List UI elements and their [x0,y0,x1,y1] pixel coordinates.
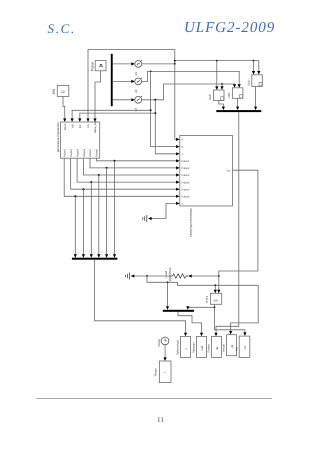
wire mux M1 to source V3 [113,98,135,101]
mux M4 output mux bar horizontal [163,310,194,312]
svg-text:Pulse1: Pulse1 [182,160,190,163]
svg-text:Vd: Vd [235,347,239,351]
svg-text:S: S [182,146,184,149]
arrow generator input 2 [71,118,74,122]
block Sc4 to workspace vq [222,335,237,356]
block G1 pulse generator (generateur d impulsions) [56,120,100,158]
node P4 junction pulse4 drop [90,181,92,183]
node P6 junction pulse6 drop [74,195,76,197]
svg-text:Temps: Temps [153,368,157,377]
wire pulse1 drop to mux M2 [113,161,116,258]
node P1 junction pulse1 drop [114,160,116,162]
wire phase C drop to Uab input 2 [220,84,223,90]
node S1 junction S net to generator input 2 [150,109,152,111]
wire T net branch to generator input 3 [80,113,156,118]
node T2 junction THY1 output branch [214,306,216,308]
wire pulse5 drop to mux M2 [82,189,85,258]
svg-text:Redresseur/thyristors: Redresseur/thyristors [189,209,193,238]
wire Uab output to mux M3 [219,101,225,111]
node T1 junction T net to generator input 3 [154,112,156,114]
block T1 to workspace temps [153,361,171,383]
source V1 AC voltage source [134,60,142,75]
svg-text:Uca: Uca [247,80,251,86]
svg-text:s/h: s/h [214,299,218,303]
ground GND1 load return [126,273,130,280]
svg-text:Pulse3: Pulse3 [182,174,190,177]
wire phase C bus from V3 [142,84,237,100]
arrow generator input 1 [63,118,66,122]
block Sc5 to workspace vd [235,336,250,357]
block THY1 measurement [205,293,222,304]
wire branch drop to THY1 input 1 [214,285,217,293]
svg-text:12: 12 [61,90,65,94]
wire S net branch to generator input 2 [72,110,151,118]
wire phase A drop to Uab input 1 [215,61,218,90]
arrow generator input 5 [93,118,96,122]
resistor RL load [164,267,188,281]
arrow generator input 4 [86,118,89,122]
wire mux M1 to source V1 [113,62,135,65]
block Sc3 to workspace vabc [207,336,222,357]
block X1 thyristor rectifier subsystem [180,136,233,238]
wire pulse 3 generator out4 to rectifier Pulse3 [84,158,180,176]
wire pulse4 drop to mux M2 [90,182,93,258]
svg-text:Virtuel: Virtuel [222,344,226,352]
svg-text:100 Ohms: 100 Ohms [168,267,172,281]
svg-text:Block: Block [64,123,67,130]
svg-text:Pulse3: Pulse3 [76,149,79,157]
node P3 junction pulse3 drop [98,174,100,176]
wire load line from Vd node to resistor [188,274,219,277]
wire mux M4 output to scope Sc2 [178,312,203,337]
wire phase A bus from V1 [142,61,261,75]
svg-text:ULFG2-2009: ULFG2-2009 [184,20,275,36]
wire phase B bus from V2 [142,71,241,87]
svg-text:v2: v2 [134,89,138,93]
wire phase A short drop to Uca input 1 [252,61,255,75]
svg-text:v3: v3 [134,108,138,112]
wire THY1 output branch to scope Sc5 [215,307,247,336]
mux M2 pulses mux bar horizontal [72,258,118,260]
svg-text:THY1: THY1 [205,296,209,304]
svg-text:AB: AB [71,124,74,128]
svg-text:4s: 4s [215,346,219,350]
svg-text:Pulse: Pulse [91,62,95,71]
node VD1 junction Vd leg crosses load line [218,275,220,277]
svg-text:alpha_deg: alpha_deg [94,120,97,133]
wire load to ground GND1 [131,274,171,277]
svg-text:Ubc: Ubc [227,92,231,98]
wire THY1 output to mux M4 input 2 [186,304,214,310]
block U2 voltage measurement Ubc [227,88,243,99]
wire Vd output of rectifier down to load node and THY1 input 2 [217,170,258,293]
ground GND2 for rectifier V input [143,215,147,222]
svg-text:Uab: Uab [208,94,212,100]
wire pulse 6 generator out1 to rectifier Pulse6 [64,158,180,198]
node P5 junction pulse5 drop [82,188,84,190]
svg-text:Pulse6: Pulse6 [182,196,190,199]
wire measurement branch from load line to scope Sc4 [147,276,258,335]
source V2 AC voltage source [134,78,142,93]
svg-text:vd: vd [243,346,247,350]
svg-text:Pulse4: Pulse4 [83,149,86,157]
svg-text:Pulse2: Pulse2 [182,167,190,170]
svg-text:Pulses: Pulses [207,344,211,353]
wire pulse6 drop to mux M2 [74,196,77,257]
wire mux M1 to source V2 [113,80,135,83]
wire S net phase B to rectifier input S [151,71,180,148]
wire pulse 1 generator out6 to rectifier Pulse1 [96,158,179,162]
svg-text:S.C.: S.C. [48,21,76,36]
svg-text:Pulse6: Pulse6 [96,149,99,157]
mux M1 demux bar vertical [111,54,113,106]
wire Ubc output to mux M3 [236,98,239,110]
block U1 voltage measurement Uab [208,90,224,101]
svg-text:vq: vq [230,345,234,349]
block Sc1 to workspace pulses [176,336,191,357]
node C1 junction phase C to T input [154,99,156,101]
mux M3 three-phase mux bar horizontal [216,110,261,112]
footer rule [37,397,273,399]
wire pulse 5 generator out2 to rectifier Pulse5 [71,158,180,191]
svg-text:v1: v1 [134,72,138,76]
source V3 AC voltage source [134,96,142,112]
wire pulse3 drop to mux M2 [97,175,100,258]
node C2 junction phase C to Uab input 2 [221,83,223,85]
wire top feedback loop from node A up-left to pulse generator input 4 [88,50,175,119]
svg-text:Vd: Vd [227,169,231,172]
node P2 junction pulse2 drop [106,167,108,169]
node L3 junction branch to THY1 input 1 [214,284,216,286]
block U3 voltage measurement Uca [247,75,263,87]
svg-text:Sybsemfuut: Sybsemfuut [176,340,180,355]
svg-text:Pulse5: Pulse5 [89,149,92,157]
node A junction on phase A at feedback loop [174,60,176,65]
node A3 junction phase A to Uca input 1 [253,60,255,62]
svg-text:Pulse1: Pulse1 [63,149,66,157]
block PG pulse source (Pulse) [91,61,106,72]
wire Pulse block to generator input 5 [95,71,101,119]
block Sc2 to workspace sorties [192,336,207,357]
wire clock to block Temps [164,345,167,361]
wire branch drop to mux M4 input 1 [166,282,169,310]
svg-text:generateur-impulsions: generateur-impulsions [56,122,60,152]
node L1 junction load line measurement branch [146,275,148,277]
svg-text:R: R [182,139,184,142]
wire Uca output to mux M3 [254,86,257,110]
svg-text:Clock: Clock [157,338,161,346]
svg-text:Sybases: Sybases [192,342,196,353]
svg-text:BC: BC [79,124,82,128]
svg-text:11: 11 [157,416,164,424]
wire mux M2 output to scope Sc1 [95,260,188,337]
svg-text:Pulse5: Pulse5 [182,188,190,191]
clock CLK source [157,337,169,347]
svg-text:RB: RB [52,89,56,94]
wire T net phase C to rectifier input T [155,100,179,156]
block RB constant [52,85,69,96]
svg-text:Pulse2: Pulse2 [70,149,73,157]
wire ground GND2 to rectifier input V [148,202,180,220]
svg-text:vab: vab [200,345,204,350]
svg-text:CA: CA [87,124,90,128]
node B1 junction phase B to S input [150,71,152,73]
wire pulse 2 generator out5 to rectifier Pulse2 [90,158,180,169]
node L2 junction branch to mux M4 input 1 [167,281,169,283]
svg-text:Pulse4: Pulse4 [182,181,190,184]
svg-text:V: V [182,203,184,206]
wire R net phase A to rectifier input R [175,64,180,141]
wire RB block to generator input 1 [63,96,65,118]
node A2 junction phase A to Uab input 1 [216,60,218,62]
arrow generator input 3 [78,118,81,122]
wire pulse 4 generator out3 to rectifier Pulse4 [77,158,180,184]
wire mux M3 output long vertical to scope row [214,112,238,336]
wire pulse2 drop to mux M2 [105,168,108,258]
